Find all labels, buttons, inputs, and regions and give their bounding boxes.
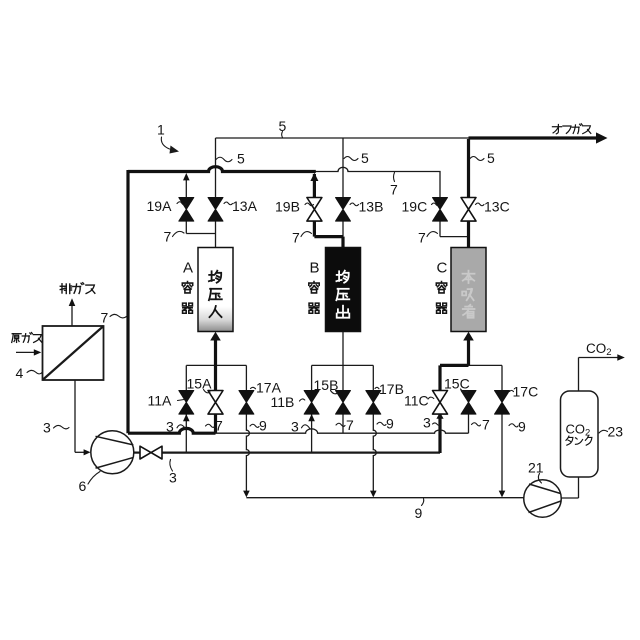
svg-text:5: 5 bbox=[487, 150, 495, 166]
svg-text:7: 7 bbox=[164, 229, 172, 245]
svg-text:13C: 13C bbox=[484, 199, 510, 215]
svg-text:19B: 19B bbox=[275, 199, 300, 215]
svg-text:13B: 13B bbox=[359, 199, 384, 215]
svg-text:17C: 17C bbox=[513, 384, 539, 400]
svg-text:6: 6 bbox=[79, 478, 87, 494]
svg-text:11B: 11B bbox=[271, 394, 295, 410]
svg-text:3: 3 bbox=[166, 419, 174, 435]
svg-text:15C: 15C bbox=[444, 376, 470, 392]
svg-text:15A: 15A bbox=[187, 376, 213, 392]
svg-text:3: 3 bbox=[423, 415, 431, 431]
svg-text:13A: 13A bbox=[232, 198, 258, 214]
svg-text:19C: 19C bbox=[402, 199, 428, 215]
svg-text:9: 9 bbox=[386, 416, 394, 432]
svg-text:5: 5 bbox=[237, 151, 245, 167]
svg-text:15B: 15B bbox=[314, 377, 339, 393]
svg-text:7: 7 bbox=[418, 230, 426, 246]
svg-text:1: 1 bbox=[157, 122, 165, 138]
svg-text:5: 5 bbox=[361, 150, 369, 166]
svg-text:4: 4 bbox=[16, 365, 24, 381]
svg-text:B: B bbox=[310, 260, 320, 277]
svg-text:A: A bbox=[183, 260, 193, 277]
svg-text:9: 9 bbox=[259, 418, 267, 434]
svg-text:3: 3 bbox=[43, 420, 51, 436]
svg-text:17A: 17A bbox=[256, 380, 282, 396]
svg-text:9: 9 bbox=[518, 419, 526, 435]
svg-text:C: C bbox=[437, 260, 448, 277]
svg-text:21: 21 bbox=[528, 460, 544, 476]
svg-text:3: 3 bbox=[291, 419, 299, 435]
svg-text:5: 5 bbox=[279, 118, 287, 134]
svg-text:7: 7 bbox=[390, 182, 398, 198]
svg-text:7: 7 bbox=[482, 417, 490, 433]
svg-text:3: 3 bbox=[169, 470, 177, 486]
svg-text:7: 7 bbox=[292, 230, 300, 246]
svg-text:9: 9 bbox=[415, 505, 423, 521]
svg-text:23: 23 bbox=[608, 424, 624, 440]
svg-text:11C: 11C bbox=[404, 393, 429, 409]
svg-text:11A: 11A bbox=[148, 393, 173, 409]
svg-text:19A: 19A bbox=[147, 198, 173, 214]
svg-text:7: 7 bbox=[346, 417, 354, 433]
svg-text:17B: 17B bbox=[379, 381, 404, 397]
svg-text:7: 7 bbox=[215, 418, 223, 434]
svg-text:7: 7 bbox=[101, 310, 109, 326]
